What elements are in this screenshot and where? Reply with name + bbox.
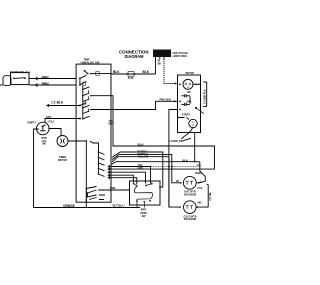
svg-text:GRN: GRN [138,167,144,170]
svg-text:START: START [182,114,191,117]
svg-text:BLK: BLK [183,158,189,162]
svg-text:BRN: BRN [42,82,50,86]
svg-text:FULL: FULL [49,121,56,124]
svg-text:BAL: BAL [187,100,193,103]
svg-text:BLK: BLK [138,143,145,147]
svg-text:MOTOR: MOTOR [58,159,67,162]
svg-text:DOOR SW. (C.): DOOR SW. (C.) [10,70,30,74]
svg-text:BK: BK [158,63,162,66]
svg-text:ALWAYS PRES.: ALWAYS PRES. [172,54,187,58]
svg-text:BRN: BRN [42,75,50,79]
svg-text:UN: UN [187,91,191,94]
svg-text:W.BL: W.BL [195,171,202,175]
svg-text:VIO: VIO [197,201,201,204]
svg-text:2D: 2D [176,180,179,183]
svg-text:SOLENOID: SOLENOID [184,193,197,196]
svg-text:SOLENOID: SOLENOID [184,218,197,221]
svg-text:DIAGRAM: DIAGRAM [125,54,144,59]
svg-text:UNBALNC SW: UNBALNC SW [80,60,99,64]
svg-text:YEL: YEL [197,164,202,167]
svg-text:GRY: GRY [46,115,52,119]
svg-text:BLK: BLK [109,124,114,126]
svg-text:CLD: CLD [197,187,202,190]
svg-text:W.T.BLU: W.T.BLU [113,203,125,207]
svg-text:EMPTY: EMPTY [28,121,37,125]
svg-text:BLK: BLK [113,70,120,74]
svg-text:4 CONC PIN: 4 CONC PIN [169,139,184,143]
svg-text:PNK: PNK [110,186,116,190]
svg-text:(2) YEL: (2) YEL [209,191,212,200]
svg-text:3 COND PLG: 3 COND PLG [204,89,207,104]
svg-text:PNK-BLK: PNK-BLK [160,98,172,102]
svg-text:MOTOR: MOTOR [186,71,195,75]
svg-text:ORNGE: ORNGE [63,204,75,208]
svg-text:BLK: BLK [143,70,150,74]
svg-text:YELLOW: YELLOW [138,156,149,159]
svg-text:LT. BLU: LT. BLU [52,101,64,105]
svg-text:FUS.: FUS. [128,76,134,80]
